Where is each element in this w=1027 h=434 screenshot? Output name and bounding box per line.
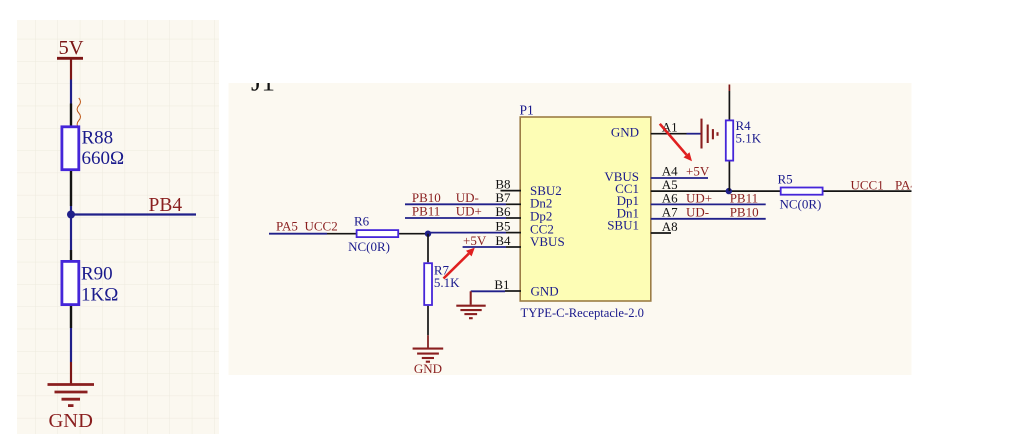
svg-text:VBUS: VBUS xyxy=(530,234,565,249)
wire net UD-/PB10 at A7 xyxy=(651,218,766,220)
svg-text:660Ω: 660Ω xyxy=(82,148,125,169)
svg-text:UCC2: UCC2 xyxy=(305,218,338,233)
resistor R4 body xyxy=(726,120,733,160)
red annotation arrow 1 xyxy=(444,248,475,279)
pin of R7 (bottom) xyxy=(427,306,429,335)
pin B5 xyxy=(506,232,521,234)
pin B4 xyxy=(506,246,521,248)
pin B1 xyxy=(505,290,521,292)
svg-text:A7: A7 xyxy=(662,205,678,220)
pin B7 xyxy=(506,203,521,205)
wire net UD+/PB11 at A6 xyxy=(651,203,766,205)
svg-text:A8: A8 xyxy=(662,219,678,234)
svg-text:TYPE-C-Receptacle-2.0: TYPE-C-Receptacle-2.0 xyxy=(521,306,644,320)
resistor R5 body xyxy=(781,188,823,195)
svg-text:+5V: +5V xyxy=(463,233,487,248)
ERC squiggle marker xyxy=(77,98,80,128)
wire (navy segment) xyxy=(70,80,72,104)
pin of R4 (bottom) xyxy=(728,162,730,192)
wire net UD- to pin B7 xyxy=(405,203,506,205)
ground symbol GND (left panel) xyxy=(48,385,95,406)
pin B8 (unconnected) xyxy=(501,190,522,192)
wire net B1 to ground xyxy=(471,290,505,292)
svg-text:5.1K: 5.1K xyxy=(434,275,460,290)
svg-text:B4: B4 xyxy=(495,233,511,248)
resistor R88 body xyxy=(62,127,79,170)
svg-text:B5: B5 xyxy=(495,218,510,233)
pin of R6 (left) xyxy=(327,233,356,235)
pin of R88 (black, top) xyxy=(70,104,72,127)
resistor R6 body xyxy=(357,230,399,237)
svg-text:PB11: PB11 xyxy=(412,203,440,218)
wire A5 to R5 (black) xyxy=(651,190,780,192)
svg-text:GND: GND xyxy=(49,410,93,432)
resistor R90 body xyxy=(62,261,79,304)
wire net PA5/UCC2 xyxy=(269,233,327,235)
wire from 5V (dark red segment) xyxy=(70,58,72,79)
svg-text:R88: R88 xyxy=(82,128,114,149)
resistor R7 body xyxy=(424,263,432,305)
wire from node down (navy) xyxy=(70,215,72,251)
ground symbol below R7 xyxy=(413,349,444,362)
svg-text:R6: R6 xyxy=(354,214,370,229)
svg-text:A6: A6 xyxy=(662,190,678,205)
svg-text:B1: B1 xyxy=(494,277,509,292)
wire A1 to ground xyxy=(687,133,701,135)
connector P1 body (yellow) xyxy=(520,117,651,301)
svg-text:UD+: UD+ xyxy=(686,191,712,206)
pin A8 (unconnected) xyxy=(651,232,671,234)
svg-text:R90: R90 xyxy=(81,264,113,285)
wire node to pin B5 xyxy=(428,232,506,234)
svg-text:UCC1: UCC1 xyxy=(851,177,884,192)
svg-text:PB4: PB4 xyxy=(149,195,183,216)
pin of R90 (black, top) xyxy=(70,250,72,261)
wire to node PB4 xyxy=(70,206,72,215)
svg-text:5.1K: 5.1K xyxy=(736,130,762,145)
pin B6 xyxy=(506,217,521,219)
svg-text:UD-: UD- xyxy=(686,205,709,220)
pin of R7 (top) xyxy=(427,234,429,263)
pin of R88 (black, bottom) xyxy=(70,171,72,206)
wire above R4 (red stub) xyxy=(728,85,730,92)
svg-text:GND: GND xyxy=(531,284,559,299)
svg-text:GND: GND xyxy=(611,124,639,139)
svg-text:J1: J1 xyxy=(251,67,275,97)
pin A1 xyxy=(651,133,687,135)
wire net +5V to pin B4 xyxy=(463,246,506,248)
svg-text:SBU1: SBU1 xyxy=(607,217,639,232)
power port 5V bar symbol xyxy=(57,57,83,60)
wire to ground (navy segment) xyxy=(70,328,72,362)
wire net +5V at A4 xyxy=(651,177,708,179)
wire net UD+ to pin B6 xyxy=(405,217,506,219)
svg-text:PA4: PA4 xyxy=(895,177,917,192)
ground symbol at B1 xyxy=(456,291,485,318)
svg-text:R5: R5 xyxy=(778,171,793,186)
pin of R90 (black, bottom) xyxy=(70,306,72,328)
junction node at R4 bottom xyxy=(726,188,732,194)
svg-text:PB10: PB10 xyxy=(730,205,759,220)
svg-text:+5V: +5V xyxy=(686,164,710,179)
svg-text:1KΩ: 1KΩ xyxy=(81,285,118,306)
junction node at R7 top xyxy=(425,231,431,237)
ground symbol at A1 (sideways) xyxy=(702,119,718,149)
junction node PB4 xyxy=(67,211,75,219)
svg-text:P1: P1 xyxy=(520,103,534,118)
svg-text:B6: B6 xyxy=(495,204,511,219)
svg-text:UD+: UD+ xyxy=(456,203,482,218)
svg-text:PA5: PA5 xyxy=(276,218,298,233)
svg-text:PB11: PB11 xyxy=(730,191,758,206)
svg-text:NC(0R): NC(0R) xyxy=(780,197,822,212)
wire net PB4 (horizontal) xyxy=(71,213,196,215)
wire R5 to UCC1 (black) xyxy=(824,190,914,192)
svg-text:GND: GND xyxy=(414,361,442,376)
svg-text:NC(0R): NC(0R) xyxy=(348,239,390,254)
wire to ground (dark red) xyxy=(427,335,429,348)
wire to ground (dark red segment) xyxy=(70,362,72,384)
pin of R6 (right) xyxy=(399,233,428,235)
red annotation arrow 2 xyxy=(660,124,692,162)
svg-text:5V: 5V xyxy=(59,37,84,59)
pin of R4 (top, black) xyxy=(728,91,730,120)
